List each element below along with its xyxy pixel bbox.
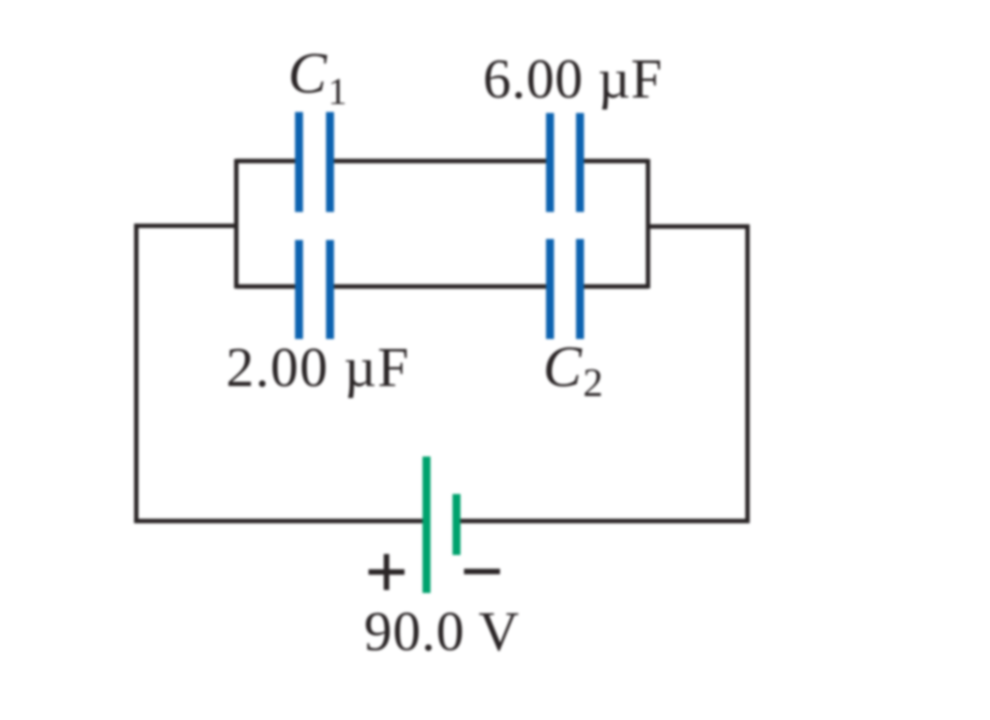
wire outer bottom right segment bbox=[457, 519, 750, 523]
wire left lead bbox=[134, 224, 238, 228]
svg-text:2.00 µF: 2.00 µF bbox=[226, 337, 410, 399]
capacitor 6.00uF left plate bbox=[546, 113, 554, 212]
svg-text:6.00 µF: 6.00 µF bbox=[483, 49, 663, 111]
capacitor 2.00uF left plate bbox=[295, 240, 303, 339]
wire top-left segment bbox=[236, 159, 299, 163]
wire outer bottom left segment bbox=[134, 519, 426, 523]
battery negative (short) plate bbox=[453, 494, 461, 555]
wire inner box left edge bbox=[234, 159, 238, 289]
svg-text:C: C bbox=[543, 334, 583, 399]
wire bottom-middle segment of inner box bbox=[330, 284, 550, 288]
capacitor C2 left plate bbox=[546, 239, 554, 339]
battery plus sign bbox=[369, 569, 405, 575]
capacitor 2.00uF right plate bbox=[326, 240, 334, 339]
svg-text:90.0 V: 90.0 V bbox=[364, 601, 520, 663]
svg-text:C: C bbox=[288, 41, 328, 106]
wire bottom-right segment of inner box bbox=[580, 284, 648, 288]
wire right lead bbox=[646, 224, 750, 228]
svg-text:2: 2 bbox=[583, 360, 603, 405]
wire inner box right edge bbox=[646, 159, 650, 289]
label C2 bbox=[543, 334, 603, 405]
capacitor C2 right plate bbox=[576, 239, 584, 339]
battery minus sign bbox=[464, 569, 500, 575]
capacitor C1 right plate bbox=[326, 112, 334, 212]
capacitor 6.00uF right plate bbox=[576, 113, 584, 212]
svg-text:1: 1 bbox=[328, 71, 347, 113]
label C1 bbox=[288, 41, 347, 114]
capacitor C1 left plate bbox=[295, 112, 303, 212]
wire top-middle segment bbox=[330, 159, 550, 163]
wire outer left vertical bbox=[134, 224, 138, 523]
wire top-right segment bbox=[580, 159, 648, 163]
wire outer right vertical bbox=[745, 225, 749, 524]
battery positive (long) plate bbox=[423, 457, 431, 594]
wire bottom-left segment of inner box bbox=[236, 284, 299, 288]
